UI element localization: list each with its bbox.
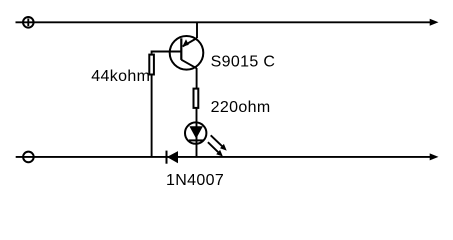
node top-right arrow xyxy=(430,19,437,25)
LED D2 xyxy=(185,122,206,143)
LED emission arrow 2 xyxy=(208,142,223,156)
svg-text:44kohm: 44kohm xyxy=(91,68,150,85)
wire base xyxy=(152,52,182,54)
wire R1 bottom lead xyxy=(151,76,153,157)
resistor R1 44kohm xyxy=(149,55,154,75)
resistor R2 220ohm xyxy=(194,89,199,108)
node plus terminal xyxy=(23,17,34,28)
LED emission arrow 1 xyxy=(211,135,227,150)
svg-text:1N4007: 1N4007 xyxy=(166,172,224,189)
node bottom-right arrow xyxy=(430,154,437,160)
wire top rail xyxy=(16,21,431,23)
svg-text:S9015 C: S9015 C xyxy=(211,53,276,70)
transistor Q1 S9015 xyxy=(170,22,204,88)
node minus terminal xyxy=(23,152,34,163)
wire bottom rail xyxy=(16,156,431,158)
wire R2 to LED to bottom rail xyxy=(196,108,198,157)
svg-text:220ohm: 220ohm xyxy=(211,99,271,116)
diode D1 1N4007 xyxy=(167,151,179,164)
